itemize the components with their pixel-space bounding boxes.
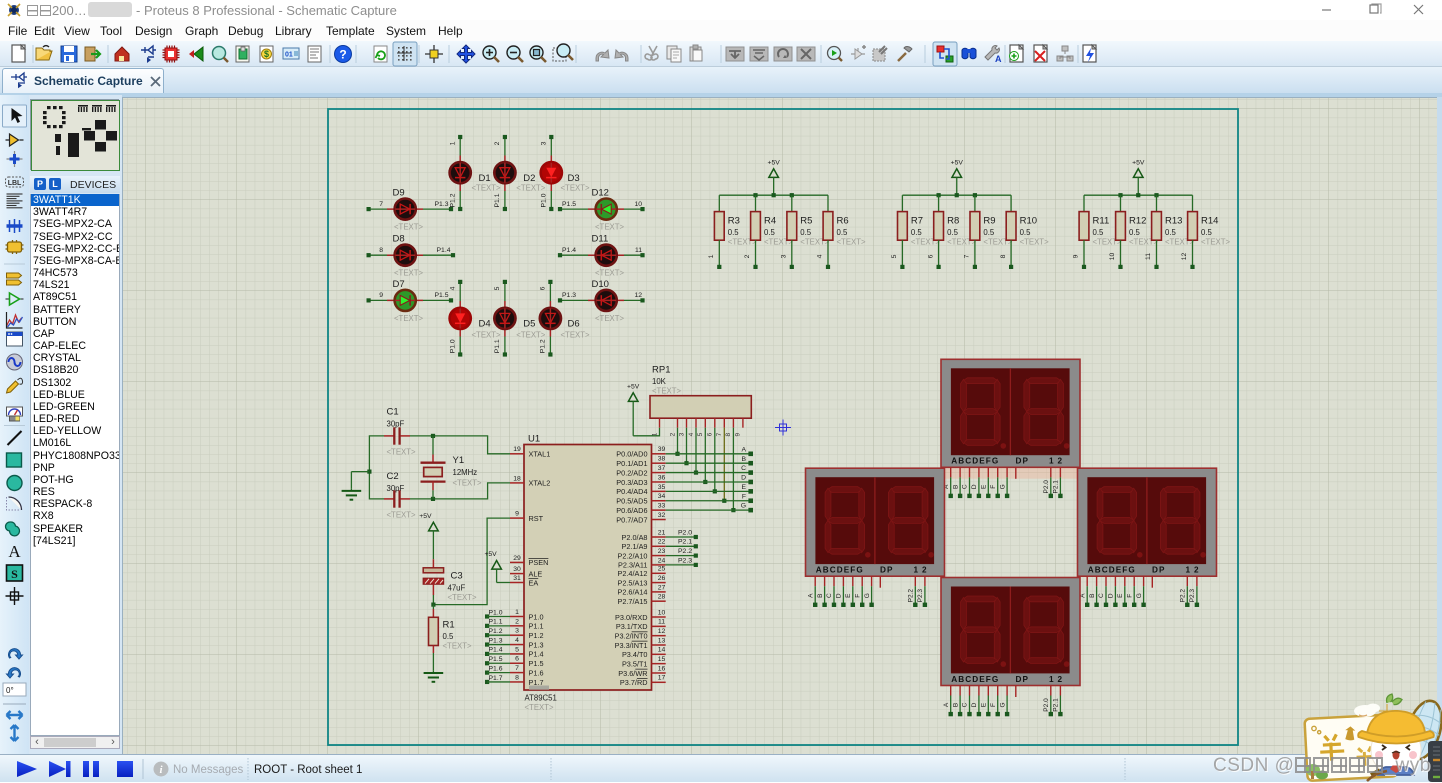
svg-text:P1.1: P1.1	[529, 622, 544, 631]
svg-text:<TEXT>: <TEXT>	[453, 479, 482, 488]
svg-text:<TEXT>: <TEXT>	[561, 184, 590, 193]
svg-text:P2.2: P2.2	[1180, 589, 1187, 603]
svg-text:4: 4	[515, 637, 519, 644]
wire D4 top	[458, 280, 462, 301]
7-segment display DS-left (2digit)	[806, 468, 945, 607]
svg-text:7: 7	[716, 432, 723, 436]
power +5V (C3)	[419, 513, 438, 559]
wire P2.1	[666, 539, 698, 549]
svg-text:22: 22	[658, 539, 666, 546]
svg-text:P1.3: P1.3	[435, 201, 449, 208]
svg-text:C3: C3	[451, 571, 463, 582]
resistor R11	[1079, 212, 1122, 247]
LED D6	[540, 308, 590, 340]
svg-text:8: 8	[515, 674, 519, 681]
svg-text:3: 3	[541, 141, 548, 145]
wire R5 bottom pin 3	[781, 240, 794, 269]
wire D8 right	[423, 253, 455, 257]
svg-text:2: 2	[1058, 457, 1063, 466]
svg-text:32: 32	[658, 512, 666, 519]
svg-text:D9: D9	[393, 188, 405, 199]
cursor crosshair	[775, 420, 791, 436]
wire R8 top	[938, 195, 940, 211]
svg-text:P1.5: P1.5	[562, 201, 576, 208]
node label pin 7	[379, 201, 383, 208]
power +5V (RP1)	[627, 383, 640, 436]
svg-text:C: C	[962, 702, 969, 707]
svg-text:P2.0: P2.0	[678, 529, 692, 536]
LED D10	[592, 279, 625, 323]
svg-text:P0.0/AD0: P0.0/AD0	[616, 450, 647, 459]
wire +5V bus (R11 group)	[1084, 193, 1193, 197]
svg-text:0.5: 0.5	[911, 228, 923, 237]
svg-text:B: B	[952, 703, 959, 707]
svg-text:P1.4: P1.4	[489, 647, 503, 654]
resistor R1	[429, 605, 472, 671]
LED D12	[592, 188, 625, 232]
svg-text:36: 36	[658, 474, 666, 481]
LED D7 lead	[387, 299, 423, 301]
svg-text:16: 16	[658, 665, 666, 672]
svg-text:B: B	[817, 594, 824, 598]
svg-text:8: 8	[725, 432, 732, 436]
svg-text:P0.2/AD2: P0.2/AD2	[616, 468, 647, 477]
wire C1 to XTAL1	[410, 434, 510, 454]
wire RP1 pin8 to net G	[731, 428, 735, 513]
ground (R1)	[424, 671, 444, 682]
title bar	[0, 0, 1442, 20]
svg-text:2: 2	[515, 618, 519, 625]
svg-text:P2.0: P2.0	[1043, 698, 1050, 712]
wire R4 top	[755, 195, 757, 211]
svg-text:30: 30	[513, 566, 521, 573]
node label P1.2	[449, 193, 456, 207]
svg-text:P1.4: P1.4	[562, 247, 576, 254]
LED D5	[494, 308, 545, 340]
svg-text:B: B	[952, 485, 959, 489]
LED D7	[393, 279, 424, 323]
wire to ground	[351, 471, 369, 473]
wire D2 bottom	[503, 191, 507, 211]
wire D3 bottom	[549, 191, 553, 211]
svg-text:<TEXT>: <TEXT>	[443, 642, 472, 651]
node label pin 9	[379, 292, 383, 299]
svg-text:0°: 0°	[6, 686, 14, 695]
node label pin 12	[634, 292, 642, 299]
svg-text:11: 11	[658, 619, 665, 626]
svg-text:C: C	[741, 465, 746, 472]
svg-text:30pF: 30pF	[387, 484, 405, 493]
svg-text:P2.0: P2.0	[1043, 480, 1050, 494]
wire D1 bottom	[458, 191, 462, 211]
wire D5 bottom	[503, 337, 507, 357]
svg-text:ROOT - Root sheet 1: ROOT - Root sheet 1	[254, 764, 362, 776]
resistor R7	[898, 212, 941, 247]
svg-text:P3.0/RXD: P3.0/RXD	[615, 613, 647, 622]
svg-text:R12: R12	[1129, 216, 1146, 227]
resistor pack RP1 10K	[650, 365, 751, 437]
power +5V (R7 group)	[951, 159, 964, 195]
svg-text:+5V: +5V	[627, 383, 640, 390]
svg-text:P2.3: P2.3	[917, 589, 924, 603]
wire D7 right	[423, 298, 453, 302]
resistor R9	[970, 212, 1013, 247]
svg-text:12MHz: 12MHz	[453, 468, 478, 477]
wire P1.1 pin 2	[485, 619, 510, 628]
LED D2 lead	[504, 156, 506, 192]
svg-text:7: 7	[964, 254, 971, 258]
wire P0.3 to net D	[666, 475, 753, 485]
svg-text:1: 1	[914, 566, 919, 575]
svg-text:E: E	[981, 702, 988, 707]
svg-text:DP: DP	[1152, 566, 1166, 575]
wire +5V to EA	[497, 582, 510, 584]
svg-text:P1.0: P1.0	[541, 193, 548, 207]
svg-text:8: 8	[1000, 254, 1007, 258]
power +5V (R3 group)	[768, 159, 781, 195]
svg-text:P1.7: P1.7	[529, 678, 544, 687]
wire P0.6 to net G	[666, 503, 753, 513]
svg-text:4: 4	[449, 286, 456, 290]
svg-text:G: G	[741, 503, 746, 510]
svg-text:DP: DP	[1016, 675, 1030, 684]
svg-text:DP: DP	[880, 566, 894, 575]
svg-text:B: B	[741, 456, 746, 463]
svg-text:37: 37	[658, 465, 666, 472]
svg-text:P2.4/A12: P2.4/A12	[617, 569, 647, 578]
capacitor C3 47uF	[423, 559, 477, 604]
svg-text:<TEXT>: <TEXT>	[394, 269, 423, 278]
LED D12 lead	[588, 208, 624, 210]
svg-text:C: C	[826, 593, 833, 598]
CSDN watermark	[1213, 755, 1431, 777]
svg-text:1: 1	[515, 609, 519, 616]
svg-text:0.5: 0.5	[728, 228, 740, 237]
svg-text:ABCDEFG: ABCDEFG	[951, 675, 999, 684]
svg-text:D7: D7	[393, 279, 405, 290]
svg-text:G: G	[864, 593, 871, 598]
LED D3	[541, 162, 590, 192]
svg-text:R11: R11	[1093, 216, 1110, 227]
wire D12 right	[624, 207, 645, 211]
wire D11 right	[624, 253, 645, 257]
resistor R13	[1152, 212, 1195, 247]
svg-text:6: 6	[927, 254, 934, 258]
svg-text:F: F	[854, 594, 861, 598]
LED D11 lead	[588, 254, 624, 256]
svg-text:P1.0: P1.0	[449, 339, 456, 353]
wire P0.1 to net B	[666, 456, 753, 466]
wire D6 bottom	[548, 337, 552, 357]
svg-text:15: 15	[658, 656, 666, 663]
svg-text:P1.3: P1.3	[529, 640, 544, 649]
svg-text:R1: R1	[443, 620, 455, 631]
svg-text:P1.3: P1.3	[562, 292, 576, 299]
svg-text:P3.3/INT1: P3.3/INT1	[615, 641, 648, 650]
svg-text:ABCDEFG: ABCDEFG	[816, 566, 864, 575]
resistor R4	[751, 212, 794, 247]
resistor R14	[1188, 212, 1231, 247]
svg-text:10K: 10K	[652, 377, 667, 386]
wire D2 top	[503, 135, 507, 156]
svg-text:P2.1: P2.1	[678, 539, 692, 546]
svg-text:38: 38	[658, 456, 666, 463]
svg-text:9: 9	[379, 292, 383, 299]
svg-text:D5: D5	[523, 319, 535, 330]
svg-text:3: 3	[515, 628, 519, 635]
wire RP1 pin7 to net F	[722, 428, 726, 503]
wire +5V bus (R7 group)	[902, 193, 1011, 197]
LED D8 lead	[387, 254, 423, 256]
node label P1.2	[540, 339, 547, 353]
node label P1.4	[562, 247, 576, 254]
svg-text:12: 12	[634, 292, 642, 299]
svg-text:0.5: 0.5	[1165, 228, 1177, 237]
svg-text:4: 4	[817, 254, 824, 258]
resistor R6	[823, 212, 866, 247]
node label pin 11	[635, 247, 642, 254]
svg-text:33: 33	[658, 503, 666, 510]
svg-text:LBL: LBL	[8, 180, 22, 187]
svg-text:39: 39	[658, 446, 666, 453]
svg-text:?: ?	[339, 48, 346, 62]
svg-text:0.5: 0.5	[1201, 228, 1213, 237]
svg-text:0.5: 0.5	[947, 228, 959, 237]
svg-text:P2.2: P2.2	[678, 548, 692, 555]
power +5V (EA)	[484, 551, 501, 583]
svg-text:+5V: +5V	[484, 551, 497, 558]
svg-text:A: A	[8, 542, 21, 561]
svg-text:A: A	[741, 446, 746, 453]
svg-text:C1: C1	[387, 407, 399, 418]
svg-text:<TEXT>: <TEXT>	[448, 593, 477, 602]
LED D1	[450, 162, 501, 192]
resistor R5	[787, 212, 830, 247]
node label pin 4	[449, 286, 456, 290]
wire D4 bottom	[458, 337, 462, 357]
svg-text:34: 34	[658, 493, 666, 500]
svg-text:P1.4: P1.4	[529, 650, 544, 659]
svg-text:P2.3: P2.3	[678, 557, 692, 564]
svg-text:P1.3: P1.3	[489, 637, 503, 644]
svg-text:P0.3/AD3: P0.3/AD3	[616, 478, 647, 487]
wire +5V bus (R3 group)	[719, 193, 828, 197]
wire P0.0 to net A	[666, 446, 753, 456]
wire P1.0 pin 1	[485, 609, 510, 618]
svg-text:21: 21	[658, 529, 666, 536]
svg-text:<TEXT>: <TEXT>	[394, 314, 423, 323]
svg-text:<TEXT>: <TEXT>	[472, 331, 501, 340]
svg-text:3: 3	[678, 432, 685, 436]
node label P1.0	[449, 339, 456, 353]
wire R14 bottom pin 12	[1181, 240, 1194, 269]
LED D1 lead	[459, 156, 461, 192]
svg-text:0.5: 0.5	[1093, 228, 1105, 237]
wire D8 left	[367, 253, 388, 257]
node label P1.5	[562, 201, 576, 208]
node label P1.1	[494, 193, 501, 207]
svg-text:P1.2: P1.2	[529, 631, 544, 640]
svg-text:P1.5: P1.5	[435, 292, 449, 299]
schematic canvas	[122, 97, 1437, 754]
wire R9 top	[974, 195, 976, 211]
svg-text:EA: EA	[529, 578, 539, 587]
wire D10 right	[624, 298, 645, 302]
wire R10 top	[1010, 195, 1012, 211]
svg-text:5: 5	[494, 286, 501, 290]
svg-text:D: D	[1108, 593, 1115, 598]
wire D5 top	[503, 280, 507, 301]
node label P1.5	[435, 292, 449, 299]
svg-text:01: 01	[285, 52, 293, 59]
resistor R12	[1116, 212, 1159, 247]
svg-text:7: 7	[379, 201, 383, 208]
node label P1.3	[435, 201, 449, 208]
svg-text:29: 29	[513, 555, 521, 562]
svg-text:P1.1: P1.1	[494, 339, 501, 353]
7-segment display DS-right (2digit)	[1078, 468, 1217, 607]
svg-text:E: E	[981, 484, 988, 489]
svg-text:<TEXT>: <TEXT>	[387, 511, 416, 520]
svg-text:D4: D4	[479, 319, 491, 330]
LED D3 lead	[550, 156, 552, 192]
svg-text:0.5: 0.5	[764, 228, 776, 237]
wire RP1 pin1 to +5V	[633, 428, 659, 436]
svg-text:0.5: 0.5	[1129, 228, 1141, 237]
svg-text:27: 27	[658, 584, 666, 591]
svg-text:2: 2	[669, 432, 676, 436]
svg-text:+5V: +5V	[1132, 159, 1145, 166]
svg-text:E: E	[741, 484, 746, 491]
svg-text:P2.6/A14: P2.6/A14	[617, 588, 647, 597]
wire P1.6 pin 7	[485, 665, 510, 674]
svg-text:XTAL2: XTAL2	[529, 479, 551, 488]
svg-text:P2.5/A13: P2.5/A13	[617, 578, 647, 587]
svg-text:0.5: 0.5	[837, 228, 849, 237]
svg-text:Y1: Y1	[453, 455, 465, 466]
svg-text:23: 23	[658, 548, 666, 555]
tab bar	[0, 67, 1442, 93]
resistor R3	[714, 212, 757, 247]
svg-text:ALE: ALE	[529, 569, 543, 578]
selection highlight band	[942, 467, 1078, 478]
svg-text:R3: R3	[728, 216, 740, 227]
svg-text:0.5: 0.5	[443, 632, 455, 641]
wire P1.7 pin 8	[485, 675, 510, 684]
svg-text:R5: R5	[800, 216, 812, 227]
wire R12 top	[1120, 195, 1122, 211]
svg-text:7: 7	[515, 665, 519, 672]
wire RP1 pin3 to net B	[684, 428, 688, 466]
svg-text:XTAL1: XTAL1	[529, 450, 551, 459]
left panel: overview + device list	[29, 95, 122, 754]
wire D3 top	[549, 135, 553, 156]
ground (crystal)	[342, 472, 362, 500]
svg-text:$: $	[264, 49, 269, 59]
svg-text:R8: R8	[947, 216, 959, 227]
svg-text:D: D	[741, 475, 746, 482]
dark widget bar	[1428, 741, 1442, 782]
svg-text:8: 8	[379, 247, 383, 254]
svg-text:B: B	[1089, 594, 1096, 598]
svg-text:11: 11	[1145, 253, 1152, 260]
svg-text:9: 9	[515, 511, 519, 518]
svg-text:R7: R7	[911, 216, 923, 227]
svg-text:F: F	[990, 485, 997, 489]
wire P0.2 to net C	[666, 465, 753, 475]
node label pin 5	[494, 286, 501, 290]
svg-text:R4: R4	[764, 216, 776, 227]
svg-text:+5V: +5V	[419, 513, 432, 520]
svg-text:P3.4/T0: P3.4/T0	[622, 650, 648, 659]
svg-text:A: A	[995, 54, 1002, 64]
wire R8 bottom pin 6	[927, 240, 940, 269]
wire RP1 pin4 to net C	[694, 428, 698, 475]
svg-text:+5V: +5V	[951, 159, 964, 166]
wire P1.5 pin 6	[485, 656, 510, 665]
wire P1.3 pin 4	[485, 637, 510, 646]
wire R4 bottom pin 2	[744, 240, 757, 269]
svg-text:2: 2	[922, 566, 927, 575]
svg-text:12: 12	[658, 628, 666, 635]
svg-text:P3.5/T1: P3.5/T1	[622, 659, 648, 668]
toolbar	[0, 41, 1442, 67]
node label pin 10	[634, 201, 642, 208]
svg-text:P0.4/AD4: P0.4/AD4	[616, 487, 647, 496]
svg-text:C: C	[1098, 593, 1105, 598]
svg-text:<TEXT>: <TEXT>	[525, 703, 554, 712]
svg-text:P1.0: P1.0	[529, 612, 544, 621]
svg-text:P0.6/AD6: P0.6/AD6	[616, 506, 647, 515]
svg-text:1: 1	[1186, 566, 1191, 575]
wire P0.5 to net F	[666, 493, 753, 503]
svg-text:E: E	[845, 593, 852, 598]
LED D4 lead	[459, 301, 461, 337]
wire RP1 pin5 to net D	[703, 428, 707, 484]
wire R3 bottom pin 1	[708, 240, 721, 269]
svg-text:P0.7/AD7: P0.7/AD7	[616, 515, 647, 524]
node label pin 3	[541, 141, 548, 145]
svg-text:13: 13	[658, 637, 666, 644]
wire R9 bottom pin 7	[964, 240, 977, 269]
svg-text:9: 9	[735, 432, 742, 436]
svg-text:P3.2/INT0: P3.2/INT0	[615, 631, 648, 640]
svg-text:10: 10	[1109, 253, 1116, 261]
svg-text:<TEXT>: <TEXT>	[595, 223, 624, 232]
svg-text:D: D	[836, 593, 843, 598]
node label P1.3	[562, 292, 576, 299]
7-segment display DS-top (2digit)	[941, 359, 1080, 498]
wire P1.4 pin 5	[485, 647, 510, 656]
svg-text:P2.1: P2.1	[1053, 698, 1060, 712]
svg-text:RP1: RP1	[652, 365, 670, 376]
svg-text:P1.5: P1.5	[529, 659, 544, 668]
svg-text:U1: U1	[528, 434, 540, 445]
svg-text:P1.2: P1.2	[489, 628, 503, 635]
svg-text:0.5: 0.5	[983, 228, 995, 237]
left tool icon column	[0, 95, 29, 754]
wire R14 top	[1192, 195, 1194, 211]
svg-text:P2.1/A9: P2.1/A9	[622, 542, 648, 551]
svg-text:P3.1/TXD: P3.1/TXD	[616, 622, 648, 631]
svg-text:F: F	[1126, 594, 1133, 598]
svg-text:AT89C51: AT89C51	[525, 694, 557, 703]
svg-text:P2.2/A10: P2.2/A10	[617, 551, 647, 560]
LED D5 lead	[504, 301, 506, 337]
power +5V (R11 group)	[1132, 159, 1145, 195]
resistor R8	[934, 212, 977, 247]
svg-text:35: 35	[658, 484, 666, 491]
